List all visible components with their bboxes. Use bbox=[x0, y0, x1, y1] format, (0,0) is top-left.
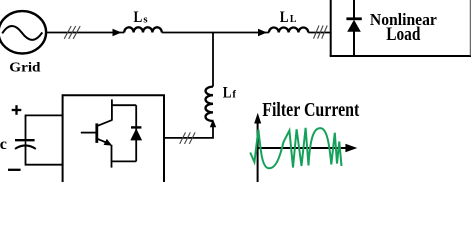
capacitor lead tick bbox=[25, 141, 27, 145]
label Ls bbox=[134, 9, 149, 26]
wire Ls to LL (through node) bbox=[162, 32, 269, 34]
plot x-axis bbox=[258, 147, 348, 149]
top rail in converter bbox=[111, 104, 136, 106]
three-phase slash marks (filter branch) bbox=[180, 132, 195, 144]
Nonlinear Load box bbox=[330, 0, 471, 56]
inductor Ls bbox=[124, 27, 162, 32]
bottom rail in converter bbox=[112, 160, 137, 162]
capacitor Cdc top plate bbox=[15, 139, 35, 141]
svg-text:L: L bbox=[280, 9, 289, 26]
sine symbol inside grid source bbox=[2, 26, 42, 40]
filter current arrow (up) bbox=[210, 119, 216, 127]
converter box bbox=[63, 95, 164, 182]
IGBT Q1 gate lead bbox=[81, 132, 96, 134]
node: junction to filter branch bbox=[212, 33, 214, 87]
capacitor Cdc curved plate bbox=[15, 145, 36, 148]
wire Lf to converter box bbox=[164, 127, 213, 138]
inductor Lf (vertical) bbox=[206, 87, 213, 121]
label Lf bbox=[223, 84, 237, 101]
svg-text:c: c bbox=[0, 136, 7, 153]
current arrow toward Ls bbox=[113, 29, 122, 37]
IGBT Q1 bar bbox=[95, 123, 98, 142]
dc-link wire top bbox=[26, 115, 63, 140]
svg-text:Load: Load bbox=[386, 24, 421, 45]
svg-text:L: L bbox=[134, 9, 143, 26]
AC source circle (Grid) bbox=[0, 11, 46, 53]
three-phase slash marks (right) bbox=[314, 26, 328, 39]
wire grid to Ls bbox=[45, 32, 124, 34]
svg-text:f: f bbox=[232, 89, 236, 101]
filter current waveform bbox=[250, 128, 341, 169]
freewheel diode cathode bar bbox=[131, 126, 141, 128]
dc-link wire bottom bbox=[26, 145, 63, 164]
svg-text:L: L bbox=[290, 14, 297, 25]
IGBT collector diagonal bbox=[97, 120, 112, 126]
plus sign bbox=[12, 105, 22, 115]
three-phase slash marks (left) bbox=[64, 26, 80, 39]
plot y-axis bbox=[257, 118, 259, 182]
label LL bbox=[280, 9, 297, 26]
IGBT emitter diagonal with arrow bbox=[97, 139, 108, 144]
svg-text:Filter Current: Filter Current bbox=[262, 99, 359, 121]
freewheel diode branch bbox=[135, 105, 137, 161]
svg-text:Grid: Grid bbox=[9, 60, 40, 75]
IGBT emitter lead bbox=[111, 145, 113, 168]
current arrow toward LL bbox=[258, 29, 267, 37]
svg-text:s: s bbox=[143, 13, 148, 25]
IGBT collector lead bbox=[111, 99, 113, 120]
minus sign bbox=[8, 169, 21, 171]
wire LL to load box bbox=[308, 32, 330, 34]
load rectifier diode bbox=[346, 0, 361, 55]
freewheel diode triangle bbox=[130, 128, 142, 140]
svg-text:L: L bbox=[223, 84, 232, 101]
inductor LL bbox=[269, 28, 308, 33]
